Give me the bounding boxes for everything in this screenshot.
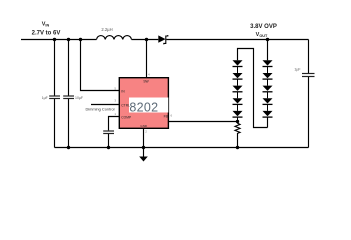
diode D1 schottky [158, 35, 168, 44]
capacitor C3 (COMP) [103, 131, 114, 134]
wire COMP pin branch [109, 117, 120, 148]
wire input cap C1 branch [54, 40, 56, 148]
svg-text:CTRL: CTRL [121, 103, 130, 107]
wire CTRL pin (dimming control) [91, 104, 119, 106]
capacitor C1 (input) [49, 96, 60, 99]
svg-text:6: 6 [171, 114, 173, 118]
svg-text:Dimming Control: Dimming Control [86, 106, 115, 111]
wire SW node rail segment (inductor to diode) [132, 39, 159, 41]
svg-text:10µF: 10µF [75, 96, 83, 100]
wire FB pin to LED string junction [169, 121, 238, 123]
node Vin/C2 [67, 38, 70, 41]
wire right LED string drop from Vout rail [267, 40, 269, 61]
inductor L1 2.2uH [97, 36, 132, 40]
svg-text:5: 5 [114, 87, 116, 91]
LED D4 string1 [233, 86, 243, 99]
svg-text:COMP: COMP [121, 115, 132, 119]
capacitor C4 (output) [302, 74, 315, 77]
node Vout/LED string2 [266, 38, 269, 41]
wire IN pin branch [81, 40, 120, 91]
LED D10 string2 [263, 98, 273, 111]
capacitor C2 (input) [63, 96, 74, 99]
wire Vin top rail left segment [21, 39, 97, 41]
svg-text:3: 3 [114, 99, 116, 103]
LED D9 string2 [263, 86, 273, 99]
LED D5 string1 [233, 98, 243, 111]
svg-text:1µF: 1µF [42, 96, 48, 100]
svg-text:SW: SW [143, 79, 149, 83]
svg-text:GND: GND [140, 124, 148, 128]
wire left LED string top hook [238, 49, 268, 128]
svg-text:1µF: 1µF [294, 68, 300, 72]
resistor R1 current sense [235, 122, 240, 135]
wire right LED string bottom [267, 117, 269, 127]
node FB junction [236, 120, 239, 123]
svg-text:4: 4 [148, 73, 150, 77]
wire input cap C2 branch [68, 40, 70, 148]
svg-text:8202: 8202 [129, 101, 158, 115]
wire output cap branch [308, 40, 310, 148]
LED D3 string1 [233, 73, 243, 86]
node gnd/IC [142, 146, 145, 149]
LED D8 string2 [263, 73, 273, 86]
node junction dots [53, 38, 269, 149]
wire resistor bottom lead [237, 135, 239, 148]
node gnd/C2 [67, 146, 70, 149]
LED D7 string2 [263, 60, 273, 73]
svg-text:2.2µH: 2.2µH [101, 27, 112, 32]
svg-text:2.7V to 6V: 2.7V to 6V [32, 30, 61, 36]
wire ground rail [55, 147, 309, 149]
node Vin/C1 [53, 38, 56, 41]
node gnd/R1 [236, 146, 239, 149]
op IC U1 8202 body [119, 78, 168, 129]
LED D2 string1 [233, 60, 243, 73]
svg-text:VIN: VIN [42, 22, 50, 28]
wire Vout top rail segment (diode to output cap corner) [166, 39, 308, 41]
svg-text:1: 1 [114, 112, 116, 116]
LED D11 string2 [263, 111, 273, 117]
svg-text:2: 2 [145, 130, 147, 134]
wire GND pin vertical [143, 129, 145, 157]
svg-text:3.8V OVP: 3.8V OVP [250, 24, 277, 30]
ground symbol (GND arrow) [139, 157, 148, 162]
node SW [145, 38, 148, 41]
node gnd/C3 [107, 146, 110, 149]
node Vin/IN [79, 38, 82, 41]
svg-text:VOUT: VOUT [256, 32, 268, 38]
LED D6 string1 [233, 111, 243, 122]
wire SW pin vertical [146, 40, 148, 78]
